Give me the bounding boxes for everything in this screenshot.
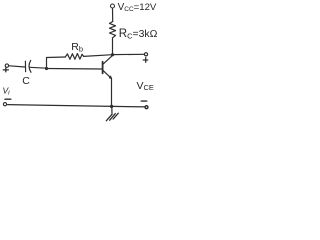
transistor Q1 collector lead bbox=[103, 55, 113, 64]
svg-text:Rb: Rb bbox=[71, 41, 83, 54]
transistor Q1 emitter arrowhead bbox=[109, 76, 111, 78]
svg-text:Vi: Vi bbox=[3, 86, 11, 97]
minus sign at input bottom bbox=[5, 98, 11, 100]
node base junction (dot) bbox=[45, 67, 48, 70]
wire collector node to output terminal bbox=[113, 53, 145, 55]
resistor Rc (vertical zigzag) bbox=[110, 22, 116, 38]
wire capacitor to base node bbox=[30, 66, 47, 69]
wire Rb branch: node up and right bbox=[47, 57, 66, 69]
svg-text:VCE: VCE bbox=[137, 80, 154, 92]
terminal Vi- (open circle, bottom-left) bbox=[3, 103, 6, 106]
wire base: node to transistor base bbox=[47, 68, 103, 71]
svg-text:RC=3kΩ: RC=3kΩ bbox=[119, 28, 158, 41]
wire Vcc to Rc top bbox=[112, 8, 114, 21]
capacitor C left plate bbox=[24, 61, 26, 71]
plus sign at input bbox=[3, 68, 8, 72]
ground stub wire bbox=[111, 106, 113, 114]
terminal Vcc (open circle, top) bbox=[111, 4, 115, 8]
node emitter-ground junction (dot) bbox=[110, 105, 113, 108]
wire Rc bottom to collector node bbox=[112, 38, 114, 55]
terminal Vce- (small circle, bottom-right) bbox=[145, 106, 148, 109]
transistor Q1 base bar bbox=[102, 62, 104, 74]
wire input to capacitor bbox=[9, 66, 25, 67]
resistor Rb (horizontal zigzag) bbox=[65, 54, 83, 60]
svg-text:VCC=12V: VCC=12V bbox=[118, 2, 157, 13]
wire bottom rail bbox=[8, 105, 145, 107]
capacitor C right plate (curved) bbox=[29, 60, 31, 72]
node collector junction (dot) bbox=[111, 53, 114, 56]
wire emitter down to ground line bbox=[111, 78, 113, 106]
svg-text:C: C bbox=[22, 75, 30, 87]
minus sign at output bottom bbox=[141, 100, 146, 102]
wire Rb right to collector node bbox=[84, 55, 113, 57]
ground symbol (chassis hatches) bbox=[106, 113, 118, 121]
terminal Vce+ (open circle) bbox=[144, 53, 147, 56]
terminal Vi+ (open circle, input top) bbox=[5, 64, 8, 67]
plus sign at output bbox=[143, 58, 147, 63]
transistor Q1 emitter lead bbox=[103, 70, 111, 78]
